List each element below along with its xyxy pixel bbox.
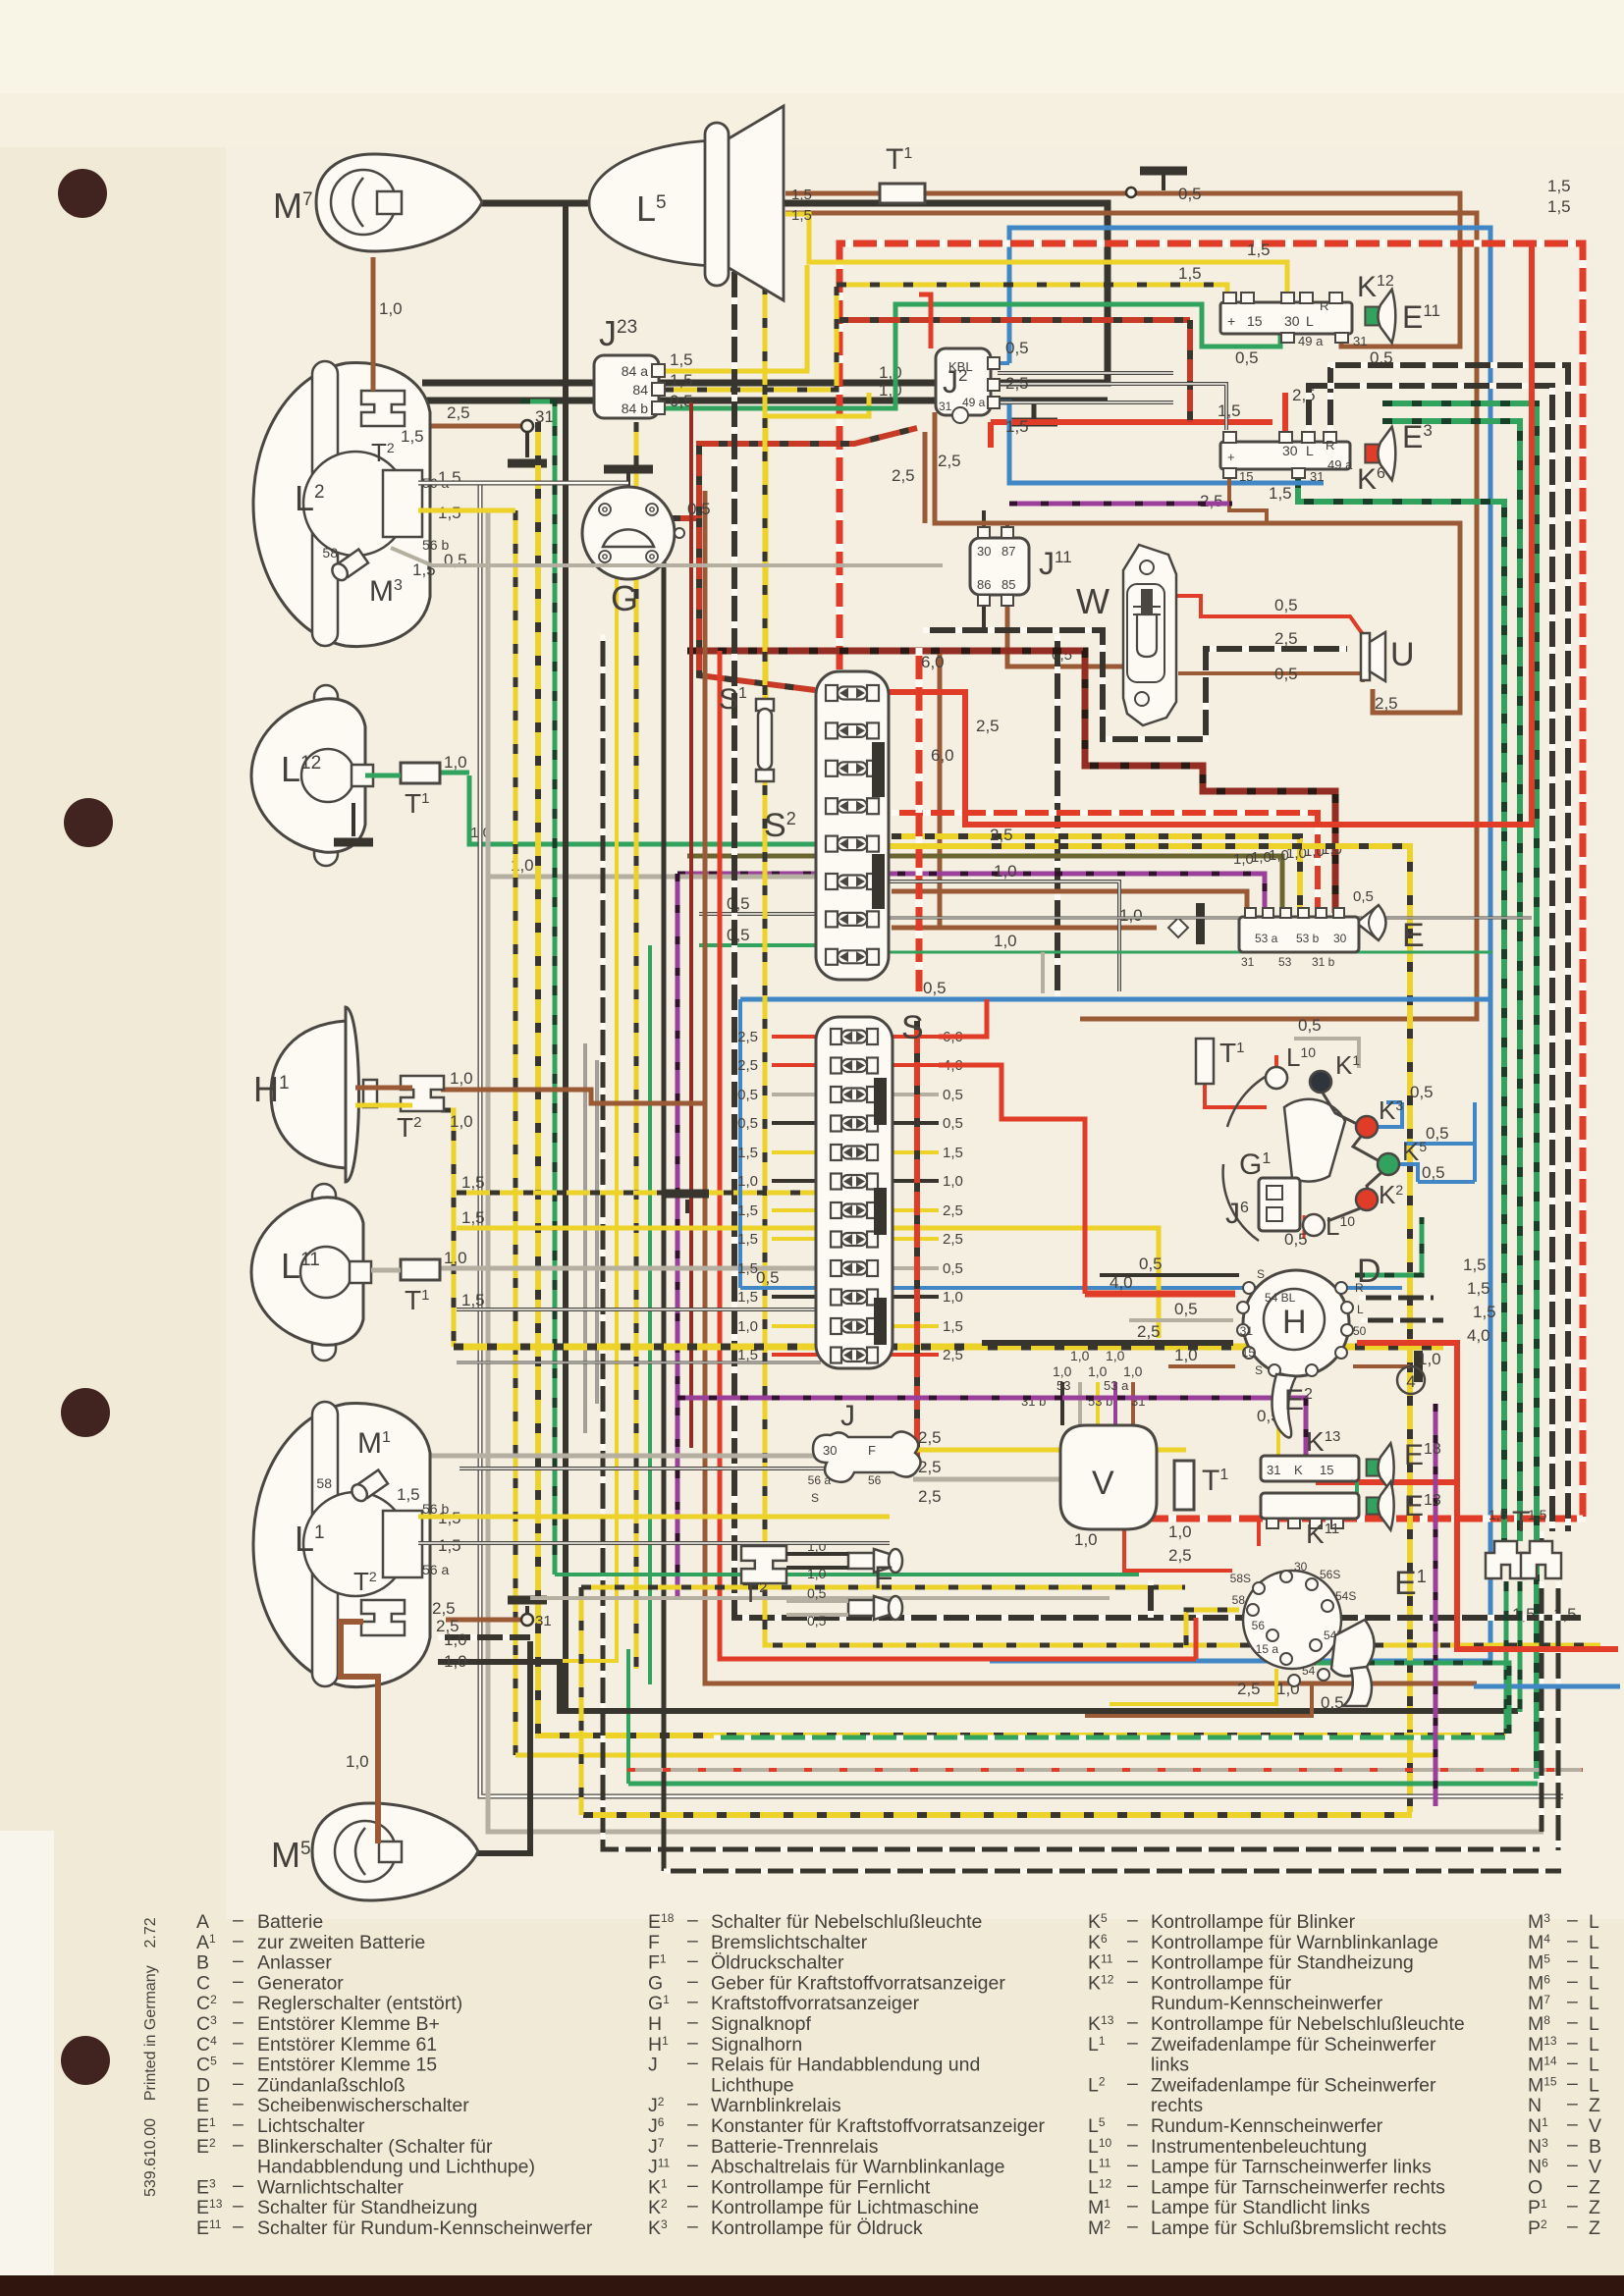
svg-text:–: –	[1127, 2011, 1138, 2033]
svg-text:–: –	[1567, 2093, 1578, 2114]
svg-text:L: L	[1306, 313, 1314, 329]
svg-text:50: 50	[1353, 1324, 1367, 1338]
svg-text:Anlasser: Anlasser	[257, 1952, 332, 1974]
svg-text:–: –	[1567, 2216, 1578, 2237]
svg-text:0,5: 0,5	[1178, 185, 1202, 203]
svg-text:1,5: 1,5	[1269, 484, 1292, 503]
svg-text:1,5: 1,5	[737, 1202, 758, 1219]
svg-text:30: 30	[1284, 313, 1300, 329]
svg-text:54S: 54S	[1335, 1589, 1356, 1603]
svg-text:–: –	[233, 2195, 244, 2216]
svg-text:–: –	[233, 2011, 244, 2033]
svg-text:Batterie-Trennrelais: Batterie-Trennrelais	[711, 2136, 879, 2158]
svg-text:KBL: KBL	[948, 359, 973, 374]
svg-text:links: links	[1151, 2055, 1189, 2076]
svg-text:1,5: 1,5	[1547, 197, 1571, 216]
svg-text:1,0: 1,0	[346, 1752, 369, 1771]
svg-text:1,5: 1,5	[737, 1145, 758, 1161]
svg-text:1,0: 1,0	[1168, 1522, 1192, 1541]
svg-text:–: –	[233, 2072, 244, 2094]
svg-text:2,5: 2,5	[943, 1231, 963, 1248]
svg-text:1,5: 1,5	[1467, 1279, 1490, 1298]
svg-text:2,5: 2,5	[976, 717, 1000, 735]
svg-text:–: –	[687, 2032, 698, 2054]
svg-text:Relais für Handabblendung und: Relais für Handabblendung und	[711, 2055, 980, 2076]
svg-text:L: L	[1589, 1932, 1599, 1953]
svg-text:1,5: 1,5	[670, 350, 693, 369]
svg-text:2,5: 2,5	[737, 1029, 758, 1045]
svg-text:–: –	[1127, 2195, 1138, 2216]
svg-text:1,5: 1,5	[791, 187, 812, 203]
svg-text:1,5: 1,5	[737, 1260, 758, 1277]
svg-text:Warnblinkrelais: Warnblinkrelais	[711, 2095, 841, 2116]
svg-text:0,5: 0,5	[1353, 888, 1374, 905]
svg-text:15: 15	[1247, 313, 1263, 329]
svg-text:–: –	[687, 2053, 698, 2074]
svg-text:J: J	[648, 2055, 658, 2076]
svg-text:1,0: 1,0	[807, 1538, 827, 1554]
svg-text:0,5: 0,5	[727, 926, 750, 944]
svg-text:Bremslichtschalter: Bremslichtschalter	[711, 1932, 868, 1953]
svg-text:1,5: 1,5	[943, 1145, 963, 1161]
svg-text:1,5: 1,5	[1528, 1507, 1547, 1522]
svg-text:–: –	[687, 1991, 698, 2012]
svg-text:–: –	[687, 1930, 698, 1951]
svg-text:56S: 56S	[1320, 1568, 1340, 1581]
svg-text:Schalter für Nebelschlußleucht: Schalter für Nebelschlußleuchte	[711, 1911, 982, 1933]
svg-text:1,0: 1,0	[444, 753, 467, 772]
svg-text:Z: Z	[1589, 2197, 1600, 2218]
svg-text:Signalknopf: Signalknopf	[711, 2013, 811, 2035]
svg-text:L: L	[1589, 2013, 1599, 2035]
svg-text:0,5: 0,5	[1139, 1255, 1163, 1273]
svg-text:2,5: 2,5	[1375, 694, 1398, 713]
svg-text:1,5: 1,5	[1547, 177, 1571, 195]
svg-text:49 a: 49 a	[962, 396, 986, 409]
svg-text:–: –	[233, 1930, 244, 1951]
svg-text:Batterie: Batterie	[257, 1911, 323, 1933]
svg-text:B: B	[196, 1952, 209, 1974]
svg-text:0,5: 0,5	[1298, 1016, 1322, 1035]
svg-text:6,0: 6,0	[931, 746, 954, 765]
svg-text:–: –	[1567, 2195, 1578, 2216]
svg-text:–: –	[687, 2113, 698, 2135]
svg-text:54 BL: 54 BL	[1265, 1291, 1296, 1305]
svg-text:–: –	[1567, 2032, 1578, 2054]
svg-text:–: –	[1127, 1930, 1138, 1951]
svg-text:1,5: 1,5	[1512, 1605, 1536, 1624]
svg-text:–: –	[1567, 1991, 1578, 2012]
svg-text:31: 31	[1310, 469, 1324, 484]
svg-text:–: –	[233, 2113, 244, 2135]
svg-text:K: K	[1294, 1463, 1303, 1477]
svg-text:1,0: 1,0	[444, 1630, 467, 1649]
svg-text:85: 85	[1001, 577, 1015, 592]
svg-text:31: 31	[1241, 955, 1255, 969]
svg-text:S: S	[901, 1009, 924, 1046]
svg-text:1,5: 1,5	[1489, 1507, 1508, 1522]
svg-text:15: 15	[1239, 469, 1253, 484]
svg-text:E: E	[196, 2095, 209, 2116]
svg-text:R: R	[1326, 438, 1334, 453]
svg-text:–: –	[687, 1909, 698, 1931]
svg-text:–: –	[1567, 2113, 1578, 2135]
svg-text:Rundum-Kennscheinwerfer: Rundum-Kennscheinwerfer	[1151, 1993, 1383, 2014]
svg-text:1,0: 1,0	[1074, 1530, 1098, 1549]
svg-text:1,5: 1,5	[461, 1208, 485, 1227]
svg-text:1,0: 1,0	[1119, 906, 1143, 925]
svg-text:–: –	[1567, 2072, 1578, 2094]
svg-text:–: –	[233, 1950, 244, 1972]
svg-text:F: F	[648, 1932, 660, 1953]
svg-text:Lichthupe: Lichthupe	[711, 2074, 794, 2096]
svg-text:1,5: 1,5	[461, 1291, 485, 1309]
svg-text:Kontrollampe für Fernlicht: Kontrollampe für Fernlicht	[711, 2176, 931, 2198]
svg-text:rechts: rechts	[1151, 2095, 1203, 2116]
svg-text:1,0: 1,0	[1123, 1363, 1143, 1379]
svg-text:F: F	[868, 1443, 876, 1458]
svg-text:B: B	[1589, 2136, 1601, 2158]
svg-text:L: L	[1589, 1952, 1599, 1974]
svg-text:–: –	[1127, 2216, 1138, 2237]
svg-text:54: 54	[1302, 1664, 1316, 1678]
svg-text:G: G	[611, 578, 638, 618]
svg-text:2,5: 2,5	[938, 452, 961, 470]
svg-text:30: 30	[1333, 932, 1347, 945]
svg-text:Scheibenwischerschalter: Scheibenwischerschalter	[257, 2095, 469, 2116]
svg-text:58: 58	[316, 1475, 332, 1491]
svg-text:1,5: 1,5	[737, 1231, 758, 1248]
svg-text:56 a: 56 a	[422, 1562, 449, 1577]
svg-text:Kontrollampe für Warnblinkanla: Kontrollampe für Warnblinkanlage	[1151, 1932, 1438, 1953]
svg-text:4: 4	[1406, 1372, 1415, 1391]
svg-text:0,5: 0,5	[727, 894, 750, 913]
svg-text:31: 31	[939, 400, 952, 413]
svg-text:–: –	[687, 2093, 698, 2114]
svg-text:49 a: 49 a	[1327, 457, 1353, 472]
svg-text:1,5: 1,5	[1178, 264, 1202, 283]
svg-text:0,5: 0,5	[737, 1087, 758, 1103]
svg-text:Öldruckschalter: Öldruckschalter	[711, 1952, 844, 1974]
svg-text:0,5: 0,5	[1274, 596, 1298, 614]
svg-text:2,5: 2,5	[447, 403, 470, 422]
svg-text:0,5: 0,5	[1284, 1230, 1308, 1249]
svg-text:31: 31	[535, 1613, 552, 1629]
svg-text:1,0: 1,0	[1070, 1348, 1090, 1363]
svg-text:1,5: 1,5	[791, 207, 812, 224]
svg-text:Geber für Kraftstoffvorratsanz: Geber für Kraftstoffvorratsanzeiger	[711, 1972, 1005, 1994]
svg-text:S: S	[1255, 1363, 1263, 1377]
svg-text:–: –	[1127, 2134, 1138, 2156]
svg-text:–: –	[1567, 2134, 1578, 2156]
svg-text:1,5: 1,5	[397, 1485, 420, 1504]
svg-text:Kontrollampe für Öldruck: Kontrollampe für Öldruck	[711, 2217, 923, 2239]
svg-text:Kontrollampe für Standheizung: Kontrollampe für Standheizung	[1151, 1952, 1414, 1974]
svg-text:Kraftstoffvorratsanzeiger: Kraftstoffvorratsanzeiger	[711, 1993, 920, 2014]
svg-text:–: –	[687, 2195, 698, 2216]
svg-text:1,5: 1,5	[438, 1536, 461, 1555]
svg-text:L: L	[1589, 1972, 1599, 1994]
svg-text:D: D	[196, 2074, 210, 2096]
svg-text:0,5: 0,5	[1174, 1300, 1198, 1318]
svg-text:1,0: 1,0	[737, 1318, 758, 1335]
svg-text:Kontrollampe für: Kontrollampe für	[1151, 1972, 1292, 1994]
svg-text:49 a: 49 a	[1298, 334, 1324, 348]
svg-text:1,0: 1,0	[450, 1112, 473, 1131]
svg-text:Z: Z	[1589, 2176, 1600, 2198]
svg-text:2,5: 2,5	[737, 1057, 758, 1074]
svg-text:–: –	[233, 2053, 244, 2074]
svg-text:1,0: 1,0	[737, 1173, 758, 1190]
svg-text:56: 56	[1252, 1619, 1266, 1632]
svg-text:31: 31	[1240, 1324, 1254, 1338]
svg-text:0,5: 0,5	[737, 1115, 758, 1132]
svg-text:0,5: 0,5	[1321, 1693, 1344, 1712]
svg-text:2,5: 2,5	[943, 1202, 963, 1219]
svg-text:Lampe für Tarnscheinwerfer lin: Lampe für Tarnscheinwerfer links	[1151, 2157, 1432, 2178]
svg-text:0,5: 0,5	[943, 1260, 963, 1277]
svg-text:Kontrollampe für Nebelschlußle: Kontrollampe für Nebelschlußleuchte	[1151, 2013, 1465, 2035]
svg-text:Reglerschalter (entstört): Reglerschalter (entstört)	[257, 1993, 462, 2014]
svg-text:87: 87	[1001, 544, 1015, 559]
svg-text:S: S	[811, 1491, 819, 1505]
svg-text:Schalter für Rundum-Kennschein: Schalter für Rundum-Kennscheinwerfer	[257, 2217, 593, 2239]
svg-text:–: –	[687, 1970, 698, 1992]
svg-text:J: J	[840, 1400, 855, 1432]
svg-text:1,0: 1,0	[943, 1173, 963, 1190]
svg-text:1,5: 1,5	[1005, 417, 1029, 436]
svg-text:–: –	[1567, 2155, 1578, 2176]
svg-text:–: –	[233, 2216, 244, 2237]
svg-text:W: W	[1076, 581, 1110, 621]
svg-text:1,0: 1,0	[1053, 1363, 1072, 1379]
svg-text:R: R	[1355, 1281, 1364, 1295]
svg-text:–: –	[687, 2174, 698, 2196]
svg-text:1,0: 1,0	[450, 1069, 473, 1088]
svg-text:0,5: 0,5	[756, 1268, 780, 1287]
svg-text:Handabblendung und Lichthupe): Handabblendung und Lichthupe)	[257, 2157, 535, 2178]
svg-text:Lampe für Tarnscheinwerfer rec: Lampe für Tarnscheinwerfer rechts	[1151, 2176, 1445, 2198]
svg-text:–: –	[233, 2032, 244, 2054]
svg-text:Lampe für Standlicht links: Lampe für Standlicht links	[1151, 2197, 1371, 2218]
svg-text:56: 56	[868, 1473, 882, 1487]
svg-text:N: N	[1528, 2095, 1542, 2116]
svg-text:31: 31	[1353, 334, 1367, 348]
svg-text:2,5: 2,5	[1168, 1546, 1192, 1565]
svg-text:Z: Z	[1589, 2095, 1600, 2116]
svg-text:1,5: 1,5	[943, 1318, 963, 1335]
svg-text:1,5: 1,5	[1247, 240, 1271, 259]
svg-text:1,0: 1,0	[994, 932, 1017, 950]
svg-text:–: –	[687, 2011, 698, 2033]
svg-text:L: L	[1589, 2074, 1599, 2096]
svg-text:84 a: 84 a	[622, 363, 648, 379]
svg-text:Entstörer Klemme B+: Entstörer Klemme B+	[257, 2013, 440, 2035]
svg-text:30: 30	[823, 1443, 837, 1458]
svg-text:1,0: 1,0	[379, 299, 403, 318]
svg-text:53 a: 53 a	[1104, 1378, 1129, 1393]
svg-text:Zündanlaßschloß: Zündanlaßschloß	[257, 2074, 406, 2096]
svg-text:–: –	[1127, 1950, 1138, 1972]
svg-text:31 b: 31 b	[1312, 955, 1335, 969]
svg-text:R: R	[1320, 298, 1328, 313]
svg-text:6,0: 6,0	[921, 653, 945, 671]
svg-text:–: –	[1127, 2155, 1138, 2176]
svg-text:–: –	[687, 2155, 698, 2176]
svg-text:L: L	[1306, 443, 1314, 458]
svg-text:–: –	[1127, 1909, 1138, 1931]
svg-text:1,0: 1,0	[807, 1566, 827, 1581]
svg-text:1,0: 1,0	[444, 1652, 467, 1671]
svg-text:0,5: 0,5	[1410, 1083, 1434, 1101]
svg-text:Entstörer Klemme 15: Entstörer Klemme 15	[257, 2055, 437, 2076]
svg-text:1,0: 1,0	[1174, 1346, 1198, 1364]
svg-text:H: H	[648, 2013, 662, 2035]
svg-text:15 a: 15 a	[1256, 1642, 1279, 1656]
svg-text:–: –	[233, 1909, 244, 1931]
svg-text:Lichtschalter: Lichtschalter	[257, 2115, 365, 2137]
svg-text:30: 30	[977, 544, 991, 559]
svg-text:0,5: 0,5	[1274, 665, 1298, 683]
svg-text:15: 15	[1320, 1463, 1333, 1477]
svg-text:Blinkerschalter (Schalter für: Blinkerschalter (Schalter für	[257, 2136, 493, 2158]
svg-text:2,5: 2,5	[1005, 374, 1029, 393]
svg-text:F: F	[874, 1560, 893, 1595]
svg-text:A: A	[196, 1911, 209, 1933]
svg-text:1,5: 1,5	[1473, 1303, 1496, 1321]
svg-text:Entstörer Klemme 61: Entstörer Klemme 61	[257, 2034, 437, 2056]
svg-text:1,5: 1,5	[737, 1289, 758, 1306]
svg-text:2,5: 2,5	[918, 1487, 942, 1506]
svg-text:Kontrollampe für Lichtmaschine: Kontrollampe für Lichtmaschine	[711, 2197, 979, 2218]
svg-text:–: –	[1567, 1930, 1578, 1951]
svg-text:–: –	[233, 1991, 244, 2012]
svg-text:H: H	[1282, 1304, 1307, 1341]
svg-text:Warnlichtschalter: Warnlichtschalter	[257, 2176, 404, 2198]
svg-text:0,5: 0,5	[1235, 348, 1259, 367]
svg-text:–: –	[233, 1970, 244, 1992]
svg-text:Abschaltrelais für Warnblinkan: Abschaltrelais für Warnblinkanlage	[711, 2157, 1005, 2178]
svg-text:–: –	[1567, 2011, 1578, 2033]
svg-text:L: L	[1589, 2055, 1599, 2076]
svg-text:–: –	[1127, 2032, 1138, 2054]
svg-text:1,0: 1,0	[444, 1249, 467, 1267]
svg-text:Zweifadenlampe für Scheinwerfe: Zweifadenlampe für Scheinwerfer	[1151, 2074, 1436, 2096]
svg-text:1,5: 1,5	[461, 1173, 485, 1192]
svg-text:84: 84	[632, 382, 648, 398]
svg-text:0,5: 0,5	[1426, 1124, 1449, 1143]
svg-text:30: 30	[1282, 443, 1298, 458]
svg-text:0,5: 0,5	[943, 1115, 963, 1132]
svg-text:53 a: 53 a	[1255, 932, 1278, 945]
svg-text:Instrumentenbeleuchtung: Instrumentenbeleuchtung	[1151, 2136, 1367, 2158]
svg-text:–: –	[1127, 1970, 1138, 1992]
svg-text:1,0: 1,0	[879, 381, 902, 400]
svg-text:Z: Z	[1589, 2217, 1600, 2239]
svg-text:30: 30	[1294, 1560, 1308, 1574]
svg-text:1,5: 1,5	[1218, 401, 1241, 420]
svg-text:0,5: 0,5	[687, 500, 711, 518]
svg-text:84 b: 84 b	[622, 400, 648, 416]
svg-text:–: –	[233, 2174, 244, 2196]
svg-text:15: 15	[1242, 1346, 1256, 1360]
svg-text:2,5: 2,5	[918, 1428, 942, 1447]
svg-text:–: –	[1567, 1950, 1578, 1972]
svg-text:Konstanter für Kraftstoffvorra: Konstanter für Kraftstoffvorratsanzeiger	[711, 2115, 1045, 2137]
svg-text:G: G	[648, 1972, 663, 1994]
svg-text:Generator: Generator	[257, 1972, 344, 1994]
svg-text:Zweifadenlampe für Scheinwerfe: Zweifadenlampe für Scheinwerfer	[1151, 2034, 1436, 2056]
svg-text:2,5: 2,5	[990, 826, 1013, 844]
svg-text:U: U	[1390, 636, 1415, 673]
svg-text:58S: 58S	[1230, 1572, 1251, 1585]
svg-text:2,5: 2,5	[432, 1599, 456, 1618]
svg-text:1,5: 1,5	[737, 1347, 758, 1363]
svg-text:L: L	[1357, 1303, 1364, 1316]
svg-text:zur zweiten Batterie: zur zweiten Batterie	[257, 1932, 425, 1953]
svg-text:1,5: 1,5	[1463, 1255, 1487, 1274]
svg-text:1,0: 1,0	[994, 862, 1017, 881]
svg-text:2,5: 2,5	[1274, 629, 1298, 648]
svg-text:–: –	[233, 2134, 244, 2156]
svg-text:–: –	[233, 2093, 244, 2114]
svg-text:53: 53	[1278, 955, 1292, 969]
svg-text:–: –	[1127, 2113, 1138, 2135]
svg-text:Lampe für Schlußbremslicht rec: Lampe für Schlußbremslicht rechts	[1151, 2217, 1447, 2239]
svg-text:–: –	[687, 2134, 698, 2156]
svg-text:53 b: 53 b	[1296, 932, 1320, 945]
svg-text:L: L	[1589, 1993, 1599, 2014]
svg-text:Signalhorn: Signalhorn	[711, 2034, 802, 2056]
svg-text:4,0: 4,0	[1467, 1326, 1490, 1345]
svg-text:1,0: 1,0	[1106, 1348, 1125, 1363]
svg-text:0,5: 0,5	[807, 1585, 827, 1601]
svg-text:0,5: 0,5	[1422, 1163, 1445, 1182]
svg-text:Kontrollampe für Blinker: Kontrollampe für Blinker	[1151, 1911, 1356, 1933]
svg-text:–: –	[687, 1950, 698, 1972]
svg-text:Schalter für Standheizung: Schalter für Standheizung	[257, 2197, 477, 2218]
svg-text:–: –	[1567, 2053, 1578, 2074]
svg-text:56 a: 56 a	[808, 1473, 832, 1487]
svg-text:1,0: 1,0	[1088, 1363, 1108, 1379]
svg-text:–: –	[1567, 1970, 1578, 1992]
svg-text:1,0: 1,0	[943, 1289, 963, 1306]
svg-text:1,0: 1,0	[879, 363, 902, 382]
svg-text:0,5: 0,5	[1005, 339, 1029, 357]
svg-text:–: –	[1127, 2072, 1138, 2094]
svg-text:31: 31	[1267, 1463, 1280, 1477]
svg-text:1,0: 1,0	[1418, 1350, 1441, 1368]
svg-text:0,5: 0,5	[807, 1613, 827, 1629]
svg-text:58: 58	[322, 545, 338, 561]
svg-text:1,5: 1,5	[670, 371, 693, 390]
svg-text:T: T	[1512, 1506, 1530, 1538]
svg-text:86: 86	[977, 577, 991, 592]
svg-text:2,5: 2,5	[943, 1347, 963, 1363]
svg-text:2,5: 2,5	[1237, 1680, 1261, 1698]
svg-text:V: V	[1092, 1465, 1114, 1502]
svg-text:E: E	[1402, 917, 1425, 954]
svg-text:53: 53	[1056, 1378, 1070, 1393]
svg-text:–: –	[1567, 2174, 1578, 2196]
svg-text:–: –	[687, 2216, 698, 2237]
svg-text:S: S	[1257, 1267, 1265, 1281]
svg-text:C: C	[196, 1972, 210, 1994]
svg-text:1,5: 1,5	[401, 427, 424, 446]
svg-text:L: L	[1589, 2034, 1599, 2056]
svg-text:0,5: 0,5	[943, 1087, 963, 1103]
svg-text:2,5: 2,5	[892, 466, 915, 485]
